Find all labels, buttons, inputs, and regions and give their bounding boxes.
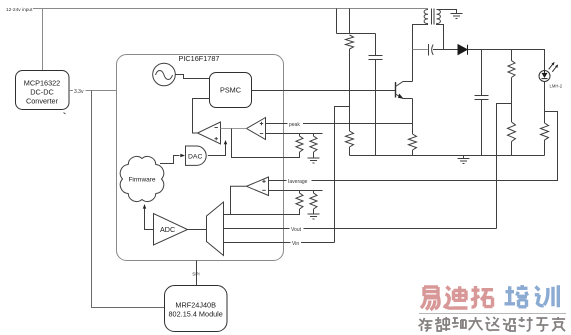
block PSMC bbox=[210, 73, 252, 108]
svg-text:DC-DC: DC-DC bbox=[30, 87, 54, 96]
wire: 3.3v rail down to MRF module bbox=[92, 91, 165, 308]
wire: Vout sense line bbox=[224, 225, 497, 233]
svg-text:SPI: SPI bbox=[192, 272, 199, 277]
wire: output node rail to LED bbox=[468, 50, 545, 71]
svg-text:MRF24J40B: MRF24J40B bbox=[175, 301, 216, 310]
wire: CM3 output down to mux input 1 bbox=[231, 186, 247, 214]
resistor R5 (input divider top) bbox=[346, 35, 354, 131]
wire: input drop to DC-DC converter bbox=[42, 9, 44, 72]
ground below R2 bbox=[308, 158, 320, 163]
svg-text:LMH-2: LMH-2 bbox=[550, 84, 563, 89]
resistor R7 (peak current sense) bbox=[409, 134, 417, 156]
ground on rail bbox=[458, 156, 470, 164]
watermark subtitle bbox=[419, 317, 566, 331]
watermark: 易迪拓培训 / 射频和天线设计专家 bbox=[421, 285, 558, 310]
wire: CM2 output to CM1 inverting input bbox=[221, 128, 247, 130]
transformer T1 bbox=[424, 9, 440, 25]
wire: DAC output to CM1 plus input (arrow) bbox=[208, 140, 227, 156]
resistor R10 (LED current sense) bbox=[541, 123, 549, 156]
wire: Vin tap bbox=[335, 107, 350, 243]
ADC triangle bbox=[154, 214, 188, 246]
svg-text:Firmware: Firmware bbox=[128, 177, 155, 184]
wire: SPI link bbox=[192, 261, 199, 286]
wire: PSMC output to transistor base bbox=[252, 90, 396, 92]
resistor R1 (peak left) bbox=[296, 134, 303, 158]
resistor R2 (peak right) bbox=[310, 134, 317, 159]
resistor R4 (Iavg right) bbox=[310, 191, 317, 215]
wire: mux input 1 / CM3 feedback bbox=[224, 209, 300, 215]
comparator CM1 bbox=[198, 122, 221, 144]
wire: collector to primary bottom bbox=[413, 25, 429, 82]
wire: I average sense line bbox=[269, 112, 558, 185]
wire: LED cathode down bbox=[544, 82, 546, 124]
wire: Vin sense line bbox=[224, 239, 335, 247]
wire: Vout tap down bbox=[497, 104, 512, 229]
resistor R6 (input divider bottom) bbox=[346, 131, 354, 156]
wire: CM2 feedback to peak divider bottom bbox=[232, 129, 300, 158]
wire: secondary bottom to rectifier node bbox=[437, 24, 444, 50]
wire: peak sense line bbox=[266, 120, 414, 128]
cloud: Firmware bbox=[120, 157, 163, 202]
wire: 12-24V top rail bbox=[33, 8, 428, 10]
svg-text:Iaverage: Iaverage bbox=[288, 179, 308, 185]
transistor Q1 (NPN) bbox=[396, 82, 413, 99]
wire: secondary top to ground bbox=[437, 10, 463, 19]
comparator CM2 (peak) bbox=[247, 118, 266, 140]
resistor R9 (Vout divider bottom) bbox=[508, 122, 516, 156]
svg-text:Vout: Vout bbox=[291, 227, 302, 233]
diode D1 (output rectifier) bbox=[458, 45, 468, 55]
oscillator OSC bbox=[153, 63, 176, 86]
DAC block bbox=[186, 146, 207, 165]
svg-text:12-24v input: 12-24v input bbox=[6, 7, 33, 13]
wire: ADC into firmware (arrow up) bbox=[143, 204, 154, 230]
svg-text:PSMC: PSMC bbox=[220, 85, 241, 94]
svg-text:3.3v: 3.3v bbox=[74, 89, 84, 95]
wire: CM2 minus input to divider tops bbox=[266, 133, 323, 135]
wire: ground rail bbox=[350, 155, 545, 157]
capacitor C3 (output) bbox=[475, 50, 489, 156]
block U1 PIC16F1787 microcontroller bbox=[117, 54, 284, 261]
capacitor C2 (clamp) bbox=[413, 44, 459, 56]
block U3 MRF24J40B 802.15.4 Module bbox=[165, 286, 228, 332]
wire: mux to ADC bbox=[188, 229, 207, 231]
block U2 MCP16322 DC-DC Converter bbox=[16, 71, 70, 110]
wire: oscillator to PSMC bbox=[175, 75, 209, 79]
artifact mark below MCP box bbox=[64, 113, 66, 115]
mux MX1 bbox=[207, 202, 224, 256]
capacitor C1 (input bulk) bbox=[369, 34, 383, 156]
svg-text:peak: peak bbox=[289, 122, 300, 128]
svg-text:Vin: Vin bbox=[292, 241, 299, 247]
ground below R4 bbox=[308, 214, 320, 219]
svg-text:ADC: ADC bbox=[160, 225, 175, 234]
wire: snubber bus drops bbox=[337, 9, 376, 34]
svg-text:PIC16F1787: PIC16F1787 bbox=[179, 54, 220, 63]
resistor R3 (Iavg left) bbox=[296, 191, 303, 210]
wire: 3.3v output with label bbox=[69, 87, 117, 95]
resistor R8 (Vout divider top) bbox=[508, 50, 515, 123]
svg-text:Converter: Converter bbox=[26, 96, 59, 105]
comparator CM3 (I average) bbox=[247, 177, 269, 196]
wire: firmware to DAC with arrow bbox=[160, 154, 185, 164]
svg-text:802.15.4 Module: 802.15.4 Module bbox=[169, 310, 223, 319]
svg-text:MCP16322: MCP16322 bbox=[24, 78, 61, 87]
LED D2 LMH-2 bbox=[539, 62, 563, 89]
wire: CM3 minus input to divider tops bbox=[269, 190, 323, 192]
svg-text:DAC: DAC bbox=[188, 153, 202, 160]
wire: emitter to sense resistor bbox=[412, 99, 414, 135]
watermark divider bbox=[419, 313, 566, 315]
wire: CM1 output to PSMC input bbox=[193, 99, 210, 134]
